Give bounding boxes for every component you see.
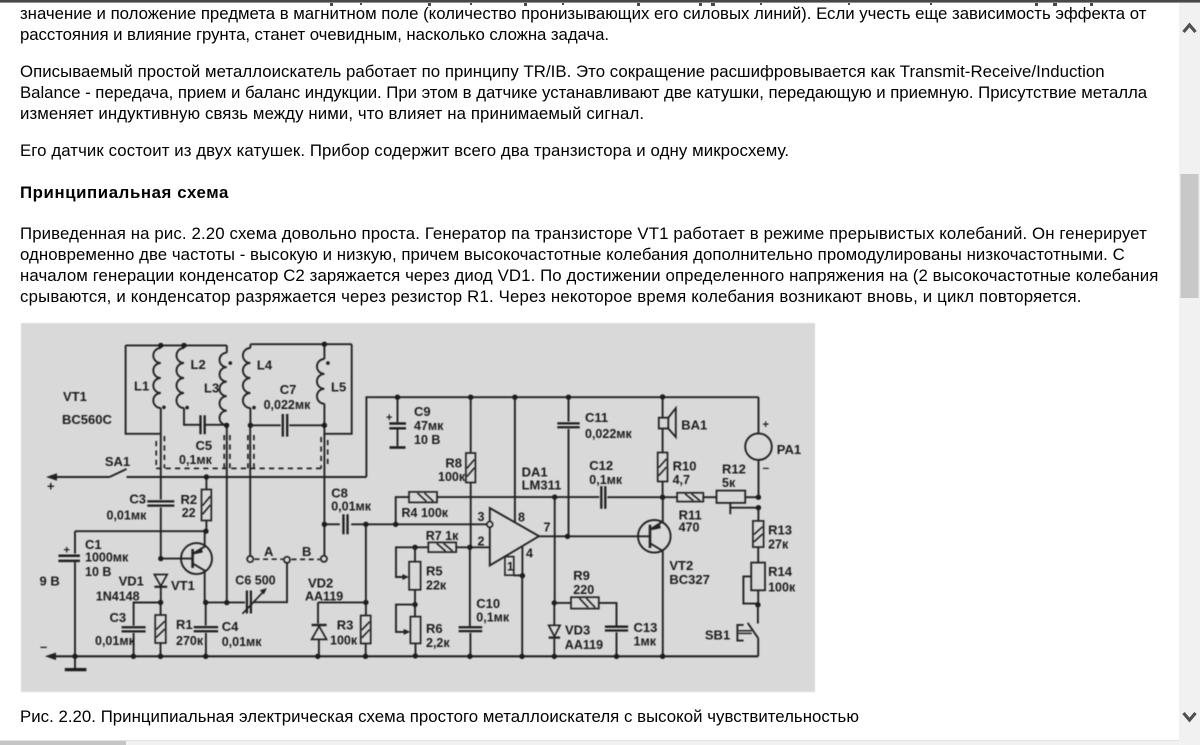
node: L4 winding polarity dot: [252, 406, 256, 410]
svg-text:AA119: AA119: [565, 638, 603, 652]
svg-text:C3: C3: [110, 610, 127, 625]
svg-text:0,1мк: 0,1мк: [589, 473, 623, 487]
node: R4 tap junction: [393, 522, 398, 527]
svg-text:+: +: [64, 545, 70, 557]
svg-text:C6 500: C6 500: [235, 574, 275, 588]
resistor R10: [662, 429, 664, 453]
svg-text:+: +: [763, 419, 769, 431]
resistor R11: [677, 493, 703, 502]
shield: dashed screen boxes around search coils: [156, 435, 328, 468]
potentiometer R5: [414, 547, 416, 561]
svg-text:C12: C12: [589, 458, 613, 473]
node: pin1/pin4 junction: [520, 573, 525, 578]
paragraph 4: [20, 223, 1158, 307]
variable capacitor C6: [227, 601, 245, 603]
wire: top tank rail (L1-L3 group): [126, 344, 227, 346]
node: C10 bottom on rail: [467, 654, 472, 659]
wire: A-B dashed links: [255, 558, 320, 560]
svg-text:0,022мк: 0,022мк: [264, 398, 312, 412]
svg-text:SA1: SA1: [105, 454, 130, 469]
wire: left feedback bracket to L1 bottom: [126, 345, 161, 433]
svg-text:3: 3: [478, 510, 485, 524]
svg-text:AA119: AA119: [305, 590, 343, 604]
terminal A (circle): [247, 556, 253, 562]
node: L3 winding polarity dot: [229, 361, 233, 365]
diode VD1: [154, 575, 167, 587]
paragraph 2: [20, 61, 1147, 124]
wire: R14 wiper tap: [743, 576, 758, 603]
svg-text:R12: R12: [722, 462, 746, 477]
node: C4 bottom on rail: [203, 654, 208, 659]
vertical scrollbar: [1179, 3, 1200, 745]
svg-text:270к: 270к: [176, 634, 204, 648]
svg-text:C5: C5: [196, 438, 213, 453]
svg-text:27к: 27к: [768, 538, 789, 552]
svg-text:C8: C8: [331, 486, 348, 501]
paragraph 3: [20, 140, 789, 161]
capacitor C3 (upper 0.01u): [160, 477, 162, 500]
svg-text:SB1: SB1: [705, 628, 730, 643]
svg-text:R7 1к: R7 1к: [426, 529, 459, 543]
node: L5 winding polarity dot: [326, 361, 330, 365]
node: R2 bottom / VT1 emitter / C1 junction: [203, 529, 208, 534]
svg-text:L4: L4: [257, 358, 273, 373]
svg-text:2: 2: [478, 535, 485, 549]
potentiometer R12: [717, 491, 746, 503]
svg-text:1000мк: 1000мк: [85, 551, 129, 565]
capacitor C13: [605, 627, 628, 631]
capacitor C11: [568, 397, 570, 421]
wire: right bracket from rail to L5 bottom: [324, 344, 351, 434]
figure caption: [20, 706, 859, 727]
node: C11 bottom on output: [565, 534, 570, 539]
node: VD3 bottom on rail: [552, 654, 557, 659]
capacitor C7: [250, 424, 280, 426]
wire: collector line to C6: [206, 601, 227, 603]
svg-text:22к: 22к: [426, 579, 447, 593]
svg-text:0,022мк: 0,022мк: [585, 427, 633, 441]
node: pin8 on rail: [512, 395, 517, 400]
node: R8 top on rail: [468, 395, 473, 400]
pushbutton SB1: [757, 605, 759, 624]
node: L3/C5 junction: [224, 423, 229, 428]
svg-text:BC327: BC327: [669, 572, 709, 587]
svg-text:47мк: 47мк: [414, 419, 444, 433]
inductor L5: [323, 344, 325, 556]
node: C13 bottom on rail: [614, 654, 619, 659]
svg-text:1N4148: 1N4148: [96, 590, 140, 604]
node: C9 junction on rail: [395, 395, 400, 400]
wire: R6 wiper: [396, 605, 415, 632]
potentiometer R14: [751, 563, 765, 591]
pin 1 box: [505, 557, 514, 576]
node: VD2 bottom on rail: [315, 654, 320, 659]
node: R7 right / R8 / pin2 junction: [467, 545, 472, 550]
node: VD1/R1/C3 junction: [158, 600, 163, 605]
node: C8 right / VD2-R3 branch junction: [363, 522, 368, 527]
wire: R5 wiper: [396, 547, 415, 577]
potentiometer R6: [414, 605, 416, 617]
node: R3 top junction: [363, 600, 368, 605]
svg-text:A: A: [264, 544, 274, 559]
svg-text:9 В: 9 В: [40, 574, 60, 589]
svg-text:10 В: 10 В: [85, 565, 111, 579]
svg-text:0,1мк: 0,1мк: [179, 453, 213, 467]
top border bar: [0, 0, 1200, 2]
node: BA1 top on rail: [660, 394, 665, 399]
inductor L1: [160, 345, 162, 477]
svg-text:R1: R1: [176, 617, 193, 632]
capacitor C12 (series in line): [601, 486, 605, 509]
svg-text:VT1: VT1: [171, 578, 195, 593]
resistor R13: [757, 508, 759, 521]
node: L4/C7 junction: [248, 423, 253, 428]
svg-text:R2: R2: [181, 492, 198, 507]
svg-text:VT2: VT2: [669, 558, 693, 573]
resistor R3: [365, 602, 367, 615]
diode VD3: [553, 603, 555, 625]
svg-text:7: 7: [544, 521, 551, 535]
svg-text:+: +: [386, 412, 392, 424]
svg-text:C4: C4: [222, 619, 239, 634]
wire: R12 wiper tap: [730, 503, 758, 514]
node: pin4 ground on rail: [519, 654, 524, 659]
wire: branch down to VD2/R3: [365, 524, 367, 602]
node: C3 bottom on rail: [131, 654, 136, 659]
svg-text:R10: R10: [673, 459, 697, 474]
svg-text:R8: R8: [445, 456, 462, 471]
meter PA1: [758, 397, 760, 433]
svg-text:0,01мк: 0,01мк: [107, 509, 148, 523]
svg-text:L2: L2: [191, 357, 206, 372]
svg-text:2,2к: 2,2к: [426, 636, 450, 650]
svg-text:4,7: 4,7: [673, 473, 690, 487]
ground: chassis stub: [74, 656, 76, 668]
resistor R7: [415, 546, 428, 548]
node: C1 bottom on rail: [72, 654, 77, 659]
svg-text:1: 1: [507, 560, 514, 574]
svg-text:C7: C7: [280, 382, 297, 397]
wire: top tank rail (L4-L5 group): [250, 343, 351, 345]
resistor R2: [205, 477, 207, 490]
node: L1 top junction: [158, 343, 163, 348]
svg-text:R3: R3: [337, 618, 354, 633]
svg-text:R13: R13: [768, 523, 792, 538]
wire: positive supply rail: [366, 397, 758, 477]
svg-text:R4 100к: R4 100к: [402, 506, 449, 520]
speaker BA1: [662, 397, 664, 418]
transistor VT2: [638, 520, 671, 553]
svg-text:4: 4: [526, 547, 533, 561]
inductor L2: [184, 345, 200, 424]
capacitor C3 (lower 0.01u): [134, 603, 161, 626]
node: R1 bottom on rail: [158, 654, 163, 659]
svg-text:220: 220: [573, 583, 594, 597]
diode VD2: [317, 602, 319, 623]
svg-text:0,1мк: 0,1мк: [476, 611, 510, 625]
terminal middle (circle): [284, 557, 290, 563]
wire: DA1 pin 8 supply: [514, 397, 516, 522]
node: C8 left / B column junction: [322, 522, 327, 527]
node: R12 right on PA1 column: [756, 495, 761, 500]
node: L3 column / C6 junction: [224, 600, 229, 605]
svg-text:VT1: VT1: [63, 389, 87, 404]
svg-text:10 В: 10 В: [414, 433, 440, 447]
transistor VT1: [181, 543, 212, 574]
capacitor C10: [469, 547, 471, 626]
svg-text:C3: C3: [129, 492, 146, 507]
node: R3 bottom on rail: [363, 654, 368, 659]
node: R2 top on SA1 wire: [204, 474, 209, 479]
inductor L4: [249, 344, 251, 556]
wire: feedback branch down to R9: [554, 497, 556, 603]
svg-text:C11: C11: [585, 410, 608, 425]
resistor R8: [470, 397, 472, 453]
wire: pin 4 ground lead: [521, 546, 523, 576]
svg-text:C10: C10: [476, 596, 500, 611]
svg-text:22: 22: [182, 506, 196, 520]
svg-text:LM311: LM311: [522, 478, 562, 493]
node: L5/C7 junction: [322, 423, 327, 428]
svg-text:R5: R5: [426, 564, 443, 579]
svg-text:8: 8: [518, 511, 525, 525]
wire: VD2/R3 branch line: [318, 601, 366, 603]
node: L2 winding polarity dot: [185, 406, 189, 410]
svg-text:R6: R6: [426, 621, 443, 636]
svg-text:+: +: [47, 479, 55, 494]
node: R6 bottom on rail: [413, 653, 418, 658]
node: VT1 base junction: [158, 556, 163, 561]
svg-text:L3: L3: [204, 381, 219, 396]
node: R7 left / R5 top junction: [412, 545, 417, 550]
svg-text:VD1: VD1: [119, 574, 144, 589]
svg-text:100к: 100к: [438, 470, 466, 484]
wire: negative supply rail with battery minus arrow: [45, 653, 56, 661]
capacitor C8: [324, 523, 339, 525]
svg-text:100к: 100к: [768, 581, 796, 595]
node: R14 bottom junction: [755, 602, 760, 607]
horizontal scrollbar: [0, 741, 1179, 745]
paragraph 1: [20, 3, 1146, 45]
svg-text:0,01мк: 0,01мк: [222, 635, 263, 649]
svg-text:0,01мк: 0,01мк: [95, 634, 136, 648]
svg-text:1мк: 1мк: [634, 635, 657, 649]
capacitor C5: [201, 415, 205, 434]
switch SA1 with battery plus arrow: [46, 473, 57, 481]
wire: pin 7 output line: [539, 535, 650, 537]
svg-text:0,01мк: 0,01мк: [331, 500, 372, 514]
terminal B (circle): [321, 556, 327, 562]
cut-off text line at very top (descender slivers): [0, 3, 1175, 7]
svg-text:100к: 100к: [330, 634, 358, 648]
svg-text:C9: C9: [414, 404, 431, 419]
node: R9/VD3 junction: [552, 600, 557, 605]
svg-text:–: –: [40, 639, 47, 654]
inductor L3: [226, 345, 228, 602]
svg-text:B: B: [302, 544, 311, 559]
resistor R1: [160, 603, 162, 616]
node: VT2 emitter column on rail: [660, 654, 665, 659]
svg-text:C13: C13: [634, 620, 658, 635]
svg-text:5к: 5к: [722, 476, 736, 490]
node: L1 winding polarity dot: [162, 406, 166, 410]
node: R5/R6 junction: [412, 602, 417, 607]
resistor R4: [396, 497, 409, 524]
node: R12 wiper on PA1 column: [756, 505, 761, 510]
node: L2 top junction: [181, 343, 186, 348]
node: L5 top junction: [322, 342, 327, 347]
capacitor C4: [205, 603, 207, 626]
capacitor C1 (electrolytic 1000u): [75, 530, 206, 532]
heading: [20, 182, 229, 203]
svg-text:R14: R14: [768, 564, 793, 579]
svg-text:VD3: VD3: [565, 623, 590, 638]
svg-text:PA1: PA1: [777, 442, 801, 457]
node: R10/R11/VT2 emitter junction: [660, 495, 665, 500]
svg-text:L5: L5: [331, 380, 346, 395]
op-amp DA1 LM311: [490, 508, 539, 566]
svg-text:BC560C: BC560C: [62, 412, 112, 427]
node: VT1 collector / C4 / C6 line junction: [203, 600, 208, 605]
svg-text:R9: R9: [573, 568, 590, 583]
svg-text:BA1: BA1: [681, 418, 707, 433]
svg-text:L1: L1: [134, 379, 149, 394]
node: feedback line to R9 branch: [552, 494, 557, 499]
resistor R9: [554, 602, 571, 604]
node: C11 top on rail: [566, 395, 571, 400]
capacitor C9 (electrolytic): [397, 397, 399, 422]
svg-text:VD2: VD2: [308, 576, 333, 591]
svg-text:–: –: [763, 461, 770, 475]
svg-text:470: 470: [679, 521, 700, 535]
